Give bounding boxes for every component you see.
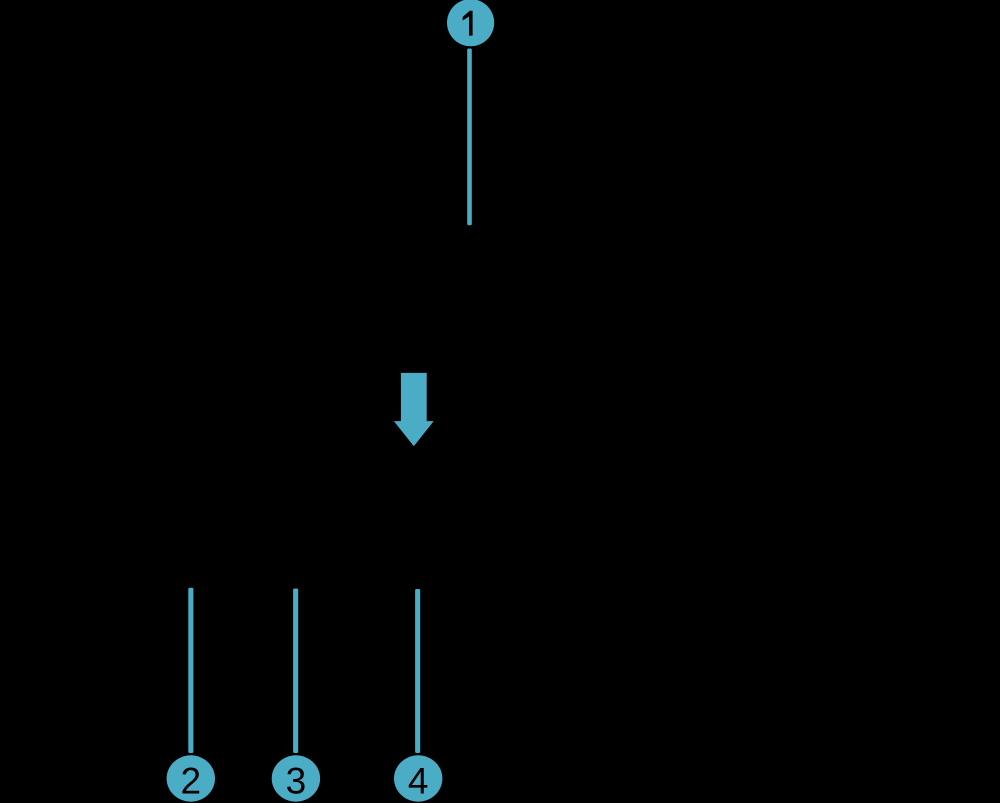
- callout line 1: [467, 49, 472, 226]
- callout line 4: [415, 589, 420, 753]
- callout circle 4: [394, 755, 442, 801]
- block arrow: [394, 373, 434, 446]
- callout circle 1: [447, 0, 494, 46]
- callout circle 3: [272, 755, 320, 801]
- svg-text:2: 2: [181, 761, 202, 802]
- callout line 3: [293, 589, 298, 754]
- callout circle 2: [167, 755, 215, 801]
- svg-text:4: 4: [408, 761, 429, 802]
- svg-text:3: 3: [286, 761, 307, 802]
- callout line 2: [188, 588, 193, 753]
- label 1: [463, 11, 473, 36]
